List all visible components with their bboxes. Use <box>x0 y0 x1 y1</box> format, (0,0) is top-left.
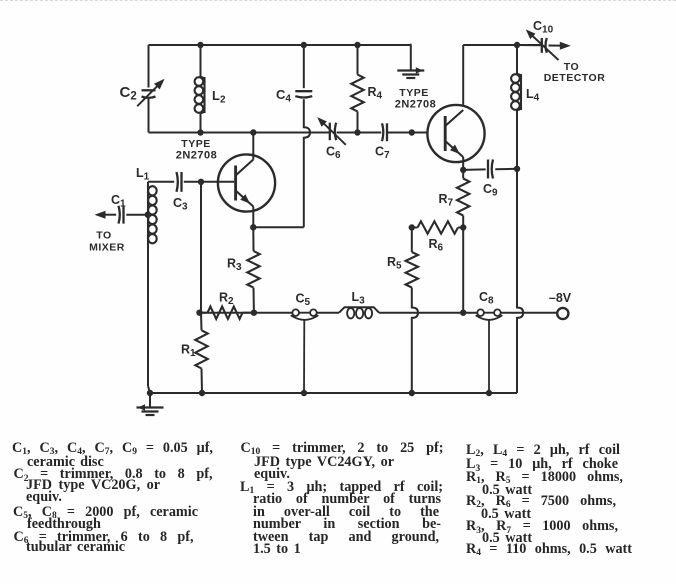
svg-text:R1: R1 <box>181 343 196 360</box>
node C9 / L4 branch <box>514 166 520 172</box>
node Q2 emitter / C9 / R7 <box>460 167 466 173</box>
parts list column 3 <box>0 0 676 2</box>
wire Q2 collector riser and top rail right <box>463 45 541 105</box>
resistor R1 <box>181 313 208 393</box>
svg-text:L3: L3 <box>352 290 366 307</box>
label TO DETECTOR <box>544 61 606 84</box>
node Q1 emitter <box>250 224 256 230</box>
resistor R6 <box>412 221 463 253</box>
svg-text:C7: C7 <box>375 145 390 162</box>
ground bottom left <box>137 393 164 415</box>
svg-text:2N2708: 2N2708 <box>395 99 437 111</box>
wire C2 branch vertical <box>148 45 150 133</box>
label TO MIXER <box>89 229 125 253</box>
inductor L2 <box>195 45 226 133</box>
node R2/R3 <box>251 310 257 316</box>
svg-text:C8: C8 <box>479 290 494 307</box>
wire L1 bottom lead <box>148 244 150 394</box>
svg-text:R4: R4 <box>368 85 383 102</box>
svg-text:C6: C6 <box>326 145 341 162</box>
node R6 right / R7 <box>460 224 466 230</box>
node second rail / R4 <box>354 129 360 135</box>
label TYPE 2N2708 (Q1) <box>176 138 218 161</box>
node ground rail / R1 <box>199 390 205 396</box>
svg-text:C3: C3 <box>173 196 188 213</box>
inductor L1 (tapped) <box>136 166 157 244</box>
capacitor C3 <box>173 172 188 213</box>
node ground rail / C5 <box>301 390 307 396</box>
svg-text:TYPE: TYPE <box>399 87 428 99</box>
svg-text:R2: R2 <box>219 291 234 308</box>
svg-text:R5: R5 <box>387 255 402 272</box>
svg-text:DETECTOR: DETECTOR <box>544 72 606 84</box>
capacitor C8 (feedthrough) <box>476 290 503 393</box>
wire top rail left (tank) <box>149 44 412 46</box>
capacitor C5 (feedthrough) <box>291 292 319 394</box>
node R6 left / R5 <box>409 224 415 230</box>
resistor R5 <box>387 228 418 288</box>
wire second rail C6-C7 segment <box>337 132 382 134</box>
svg-text:TYPE: TYPE <box>181 138 210 150</box>
terminal -8V <box>549 291 572 319</box>
resistor R7 <box>439 170 470 228</box>
parts list column 2 <box>0 0 676 2</box>
capacitor C6 (trimmer) <box>317 117 346 161</box>
wire supply row <box>200 312 558 314</box>
wire second rail C7-base segment <box>388 132 412 134</box>
wire R6-R7 junction vertical <box>462 228 464 313</box>
node top rail / R4 <box>354 42 360 48</box>
svg-text:C5: C5 <box>296 292 311 309</box>
svg-text:R7: R7 <box>439 192 454 209</box>
node second rail / Q1 collector <box>250 129 256 135</box>
transistor Q1 2N2708 <box>218 133 275 228</box>
wire Q1 emitter row <box>253 226 303 228</box>
capacitor C4 <box>276 87 312 105</box>
svg-text:R3: R3 <box>227 257 242 274</box>
transistor Q2 2N2708 <box>427 105 484 170</box>
wire second rail left <box>149 132 330 134</box>
capacitor C9 <box>463 160 517 199</box>
node top rail / L4 / C10 <box>514 42 520 48</box>
node L1 tap <box>145 212 151 218</box>
resistor R3 <box>227 227 260 312</box>
svg-text:MIXER: MIXER <box>89 241 125 253</box>
node R2/R1/base divider <box>196 310 202 316</box>
svg-text:C2: C2 <box>120 84 137 103</box>
svg-text:2N2708: 2N2708 <box>176 150 218 162</box>
svg-text:–8V: –8V <box>549 291 572 305</box>
wire ground rail <box>150 392 517 394</box>
capacitor C1 and TO MIXER lead <box>95 193 148 224</box>
node supply / R6R7 <box>460 310 466 316</box>
resistor R2 <box>200 291 254 319</box>
wire base divider vertical <box>200 182 202 313</box>
wire L1 top / base row <box>148 181 234 183</box>
node Q1 base / C3 <box>198 179 204 185</box>
wire L4 branch with hop over supply row <box>517 169 523 393</box>
svg-text:C4: C4 <box>276 87 291 105</box>
wire C4 branch with hop over second rail <box>304 45 310 227</box>
node second rail / L2 <box>197 129 203 135</box>
resistor R4 <box>351 45 382 133</box>
wire R5 branch vertical with hop over supply row <box>412 288 418 394</box>
wire Q2 base lead <box>412 132 428 134</box>
ground top (tank) <box>397 44 424 78</box>
svg-text:TO: TO <box>96 229 111 241</box>
svg-text:L4: L4 <box>526 87 540 104</box>
svg-text:R6: R6 <box>429 237 444 254</box>
capacitor C10 (trimmer) to detector <box>517 19 571 60</box>
node ground rail / R5 <box>409 390 415 396</box>
svg-text:C9: C9 <box>483 182 498 199</box>
node second rail / R5 / Q2 base <box>409 129 415 135</box>
label TYPE 2N2708 (Q2) <box>395 87 437 111</box>
svg-text:L2: L2 <box>212 88 226 106</box>
svg-text:C10: C10 <box>533 19 554 36</box>
node top rail / L2 <box>197 42 203 48</box>
svg-text:L1: L1 <box>136 166 150 183</box>
inductor L3 (rf choke) <box>339 290 379 318</box>
node ground rail / L1 <box>147 390 153 396</box>
node ground rail / C8 <box>486 390 492 396</box>
capacitor C2 (trimmer) <box>120 79 165 106</box>
capacitor C7 <box>375 123 390 161</box>
node top rail / C4 <box>301 42 307 48</box>
parts list column 1 <box>0 0 676 2</box>
inductor L4 <box>511 45 540 169</box>
